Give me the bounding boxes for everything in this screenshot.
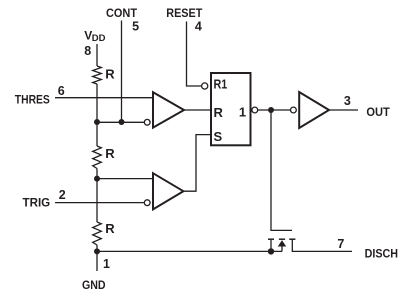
- svg-text:2: 2: [59, 188, 66, 202]
- svg-text:1: 1: [239, 104, 246, 119]
- svg-text:THRES: THRES: [15, 92, 50, 106]
- wire R2 bottom to divider node: [96, 169, 98, 179]
- wire THRES: [55, 97, 153, 99]
- junction dot transistor source at GND wire: [268, 248, 274, 254]
- wire latch output to inverter input: [258, 109, 291, 111]
- op-amp comparator2: [153, 173, 183, 209]
- svg-text:1: 1: [103, 257, 110, 271]
- latch U1 box: [211, 73, 251, 145]
- svg-text:R: R: [214, 105, 224, 120]
- svg-text:8: 8: [84, 44, 91, 58]
- transistor Q1 body stem: [281, 247, 283, 252]
- svg-text:R1: R1: [214, 77, 228, 92]
- node bubble comparator2 inverting input: [144, 200, 150, 206]
- wire R3 bottom to GND node: [96, 245, 98, 251]
- svg-text:R: R: [105, 146, 115, 161]
- svg-text:RESET: RESET: [166, 6, 203, 20]
- wire divider node to R3: [96, 179, 98, 222]
- svg-text:R: R: [105, 66, 115, 81]
- wire inverter output to OUT pin3: [329, 109, 358, 111]
- wire GND node to transistor source: [97, 250, 282, 252]
- node bubble inverter input: [291, 107, 297, 113]
- wire GND pin1 stem: [96, 251, 98, 271]
- resistor R1: [93, 66, 102, 84]
- transistor Q1 source stem: [270, 239, 272, 251]
- op-amp U3 output inverter: [299, 92, 329, 128]
- resistor R2: [93, 146, 102, 169]
- junction dot CONT line at node row: [119, 119, 125, 125]
- wire TRIG: [55, 202, 144, 204]
- svg-text:TRIG: TRIG: [23, 196, 51, 210]
- wire CONT node to R2: [96, 122, 98, 146]
- svg-text:DD: DD: [92, 33, 106, 44]
- wire CONT node row: [97, 121, 144, 123]
- wire RESET pin4 to R1 input: [187, 22, 202, 87]
- svg-text:GND: GND: [82, 278, 106, 292]
- svg-text:R: R: [105, 221, 115, 236]
- node bubble latch output: [252, 107, 258, 113]
- svg-text:CONT: CONT: [106, 6, 138, 20]
- node bubble R1 input: [202, 83, 208, 89]
- wire transistor drain to DISCH pin7: [292, 239, 352, 251]
- svg-text:S: S: [214, 129, 223, 144]
- svg-text:DISCH: DISCH: [365, 246, 398, 260]
- junction dot divider node R2 R3: [94, 176, 100, 182]
- svg-text:4: 4: [195, 19, 202, 33]
- wire VDD lead: [96, 44, 98, 66]
- svg-text:5: 5: [132, 19, 139, 33]
- svg-text:7: 7: [337, 237, 344, 251]
- transistor Q1 body arrow: [278, 240, 286, 246]
- svg-text:OUT: OUT: [366, 105, 390, 119]
- wire divider node to comparator2 plus input: [97, 178, 153, 180]
- wire latch output node to transistor gate: [271, 110, 292, 230]
- svg-text:6: 6: [58, 84, 65, 98]
- svg-text:3: 3: [344, 94, 351, 108]
- wire CONT pin5 vertical: [121, 21, 123, 123]
- junction dot latch output node: [268, 107, 274, 113]
- transistor Q1 channel bars: [268, 238, 295, 240]
- op-amp comparator1: [153, 92, 184, 127]
- node bubble comparator1 inverting input: [144, 119, 150, 125]
- junction dot CONT node on resistor column: [94, 119, 100, 125]
- wire comparator2 output to S input: [183, 135, 211, 192]
- wire R1 bottom to CONT node: [96, 84, 98, 122]
- wire comparator1 output to R input: [184, 109, 211, 111]
- resistor R3: [93, 222, 102, 245]
- junction dot GND node: [94, 248, 100, 254]
